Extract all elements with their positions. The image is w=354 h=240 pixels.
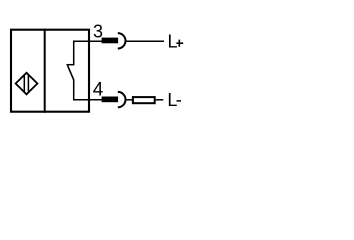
wire pin4 horizontal bbox=[73, 99, 103, 101]
connector pin 4 male contact bbox=[102, 97, 119, 103]
switch blade Q bbox=[68, 66, 74, 81]
switch fixed contact tick bbox=[67, 64, 75, 66]
wire switch lower vertical bbox=[73, 80, 75, 101]
sensor body outline U1 bbox=[11, 30, 89, 112]
node L- minus sign bbox=[177, 100, 182, 102]
diamond inner line right bbox=[27, 75, 29, 92]
node L+ plus sign bbox=[176, 42, 183, 44]
svg-text:L: L bbox=[167, 90, 177, 110]
wire arc to load bbox=[126, 99, 134, 101]
connector pin 4 socket arc bbox=[118, 92, 126, 107]
connector pin 3 socket arc bbox=[118, 33, 126, 48]
inductive sensor diamond bbox=[16, 73, 38, 95]
sensor body divider bbox=[44, 29, 46, 113]
connector pin 3 male contact bbox=[102, 38, 119, 44]
wire switch upper vertical bbox=[73, 41, 75, 65]
diamond inner line left bbox=[23, 75, 25, 91]
load resistor RL bbox=[133, 97, 155, 103]
wire to L+ bbox=[126, 40, 165, 42]
svg-text:L: L bbox=[168, 32, 178, 52]
svg-text:3: 3 bbox=[93, 22, 103, 42]
wire load to L- bbox=[156, 99, 164, 101]
wire pin3 horizontal bbox=[73, 40, 103, 42]
